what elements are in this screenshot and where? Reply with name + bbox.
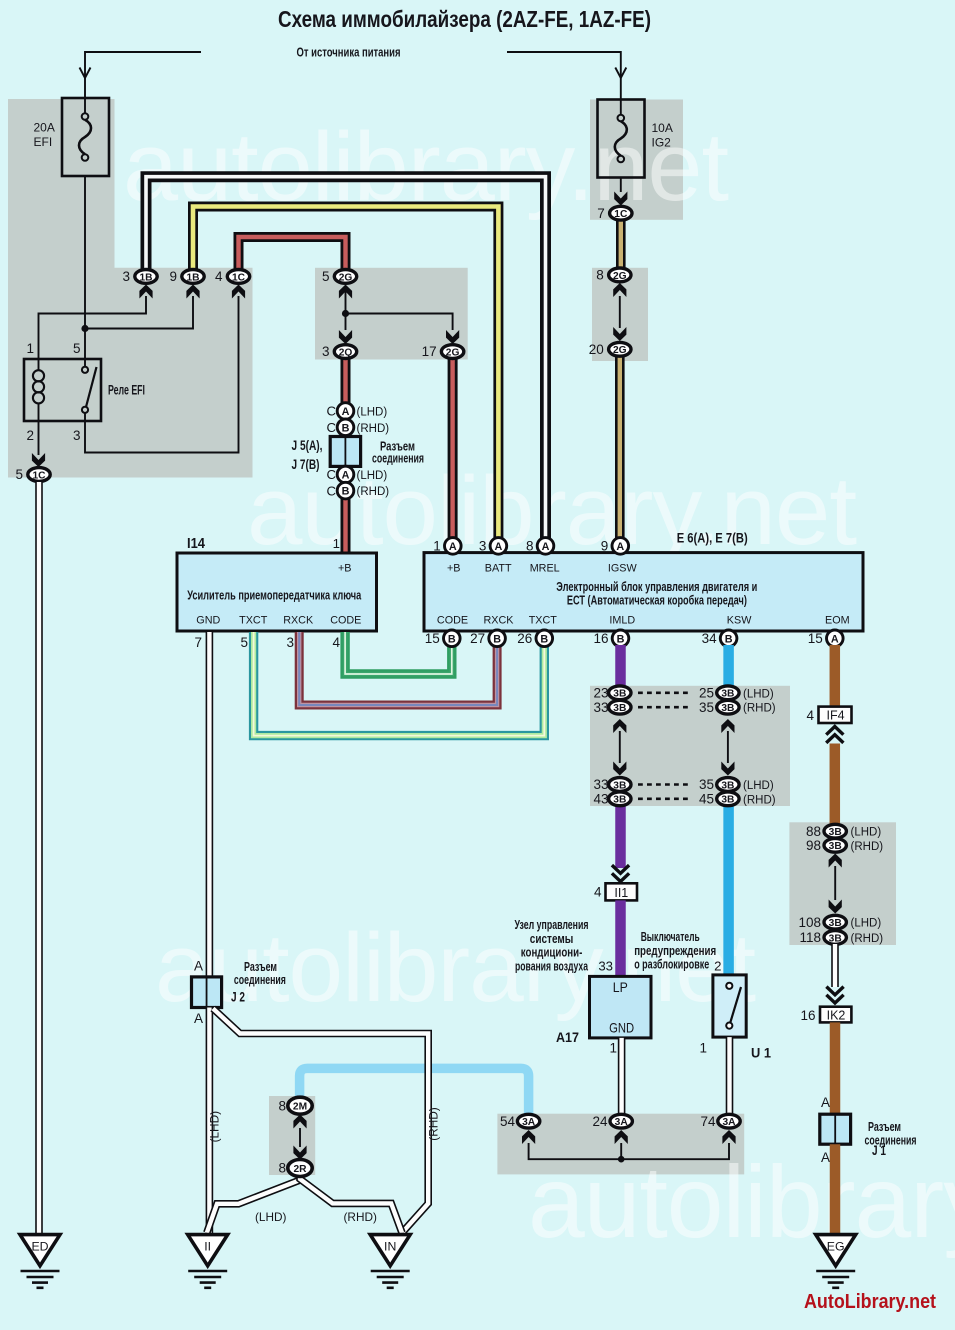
svg-text:От источника питания: От источника питания bbox=[297, 46, 401, 60]
svg-text:74: 74 bbox=[700, 1114, 716, 1129]
svg-text:3B: 3B bbox=[613, 703, 626, 714]
svg-text:J 2: J 2 bbox=[231, 989, 245, 1005]
svg-text:TXCT: TXCT bbox=[239, 615, 268, 627]
svg-text:10A: 10A bbox=[652, 121, 673, 135]
svg-text:25: 25 bbox=[699, 685, 714, 700]
svg-text:1B: 1B bbox=[139, 272, 152, 283]
svg-text:3: 3 bbox=[286, 635, 294, 650]
wire tan 20(2G) to ECU IGSW bbox=[615, 355, 625, 550]
svg-text:2G: 2G bbox=[446, 348, 460, 359]
svg-text:1: 1 bbox=[333, 536, 340, 551]
svg-text:(RHD): (RHD) bbox=[851, 933, 884, 945]
connector 3 2Q bbox=[322, 344, 357, 359]
relay EFI (Реле EFI) bbox=[24, 359, 101, 421]
svg-text:E 6(A), E 7(B): E 6(A), E 7(B) bbox=[677, 530, 748, 546]
svg-text:27: 27 bbox=[470, 631, 485, 646]
svg-text:BATT: BATT bbox=[485, 563, 512, 575]
svg-text:2G: 2G bbox=[339, 272, 353, 283]
fuse 20A EFI bbox=[62, 96, 109, 176]
svg-text:7: 7 bbox=[597, 206, 605, 221]
chevrons into 3A connectors bbox=[522, 1130, 535, 1144]
chevron into 5(1C) bbox=[32, 453, 45, 467]
svg-text:16: 16 bbox=[800, 1008, 815, 1023]
ECU top pins bbox=[433, 538, 461, 555]
wire blue-yellow TXCT loop bbox=[254, 632, 545, 736]
connector 54 3A bbox=[500, 1114, 540, 1129]
gray block around IG2 fuse bbox=[590, 100, 683, 220]
svg-text:B: B bbox=[342, 486, 350, 498]
svg-text:1: 1 bbox=[609, 1041, 617, 1056]
svg-text:4: 4 bbox=[806, 708, 814, 723]
svg-text:5: 5 bbox=[15, 467, 23, 482]
svg-text:1: 1 bbox=[26, 341, 34, 356]
pin C A (LHD) upper bbox=[337, 403, 354, 420]
svg-text:C: C bbox=[326, 404, 336, 419]
wire white 2R to ground II branch bbox=[207, 1174, 300, 1233]
junction box IK2 bbox=[820, 1007, 851, 1023]
wire cyan ECU KSW to 25(3B) bbox=[723, 645, 734, 688]
connector 35/45 3B lower bbox=[699, 777, 739, 792]
wire black 3(1B) to ECU MREL bbox=[146, 177, 546, 550]
wire red 4(1C) to 5(2G) bbox=[239, 237, 346, 269]
svg-text:(LHD): (LHD) bbox=[357, 470, 388, 482]
wire white J2 to ground II (LHD) bbox=[206, 1008, 214, 1235]
wire brown IK2 to J1 bbox=[830, 1022, 841, 1115]
svg-text:U 1: U 1 bbox=[751, 1045, 771, 1061]
svg-text:A17: A17 bbox=[556, 1030, 579, 1045]
svg-text:45: 45 bbox=[699, 791, 714, 806]
pin C A (LHD) lower bbox=[337, 466, 354, 483]
svg-text:Усилитель приемопередатчика кл: Усилитель приемопередатчика ключа bbox=[187, 588, 362, 603]
svg-text:35: 35 bbox=[699, 777, 714, 792]
svg-text:(RHD): (RHD) bbox=[743, 794, 776, 806]
junction line 5(2G) to 3(2Q) and 17(2G) bbox=[345, 291, 347, 330]
junction connector J5(A)/J7(B) bbox=[330, 437, 360, 467]
svg-text:3B: 3B bbox=[829, 827, 842, 838]
svg-text:(LHD): (LHD) bbox=[743, 780, 774, 792]
svg-text:34: 34 bbox=[702, 631, 718, 646]
svg-text:предупреждения: предупреждения bbox=[634, 944, 716, 958]
svg-text:A: A bbox=[831, 633, 839, 645]
svg-text:A: A bbox=[342, 406, 350, 418]
svg-text:II: II bbox=[204, 1239, 211, 1253]
svg-text:+B: +B bbox=[338, 563, 352, 575]
svg-text:(LHD): (LHD) bbox=[255, 1210, 287, 1224]
svg-text:43: 43 bbox=[593, 791, 608, 806]
wire green CODE loop bbox=[345, 632, 452, 674]
gray block around 2Q/2G junction connectors bbox=[315, 268, 468, 360]
svg-text:(LHD): (LHD) bbox=[357, 407, 388, 419]
svg-text:33: 33 bbox=[598, 959, 613, 974]
svg-text:MREL: MREL bbox=[530, 563, 560, 575]
svg-text:1B: 1B bbox=[186, 272, 199, 283]
wire junction to connector 9(1B) bbox=[85, 296, 193, 329]
svg-text:C: C bbox=[326, 483, 336, 498]
arrow into fuse F1 bbox=[80, 68, 91, 79]
svg-text:108: 108 bbox=[798, 915, 821, 930]
svg-text:2: 2 bbox=[714, 959, 721, 974]
block ECU E6(A)/E7(B) bbox=[424, 553, 863, 631]
svg-text:KSW: KSW bbox=[727, 615, 752, 627]
svg-text:4: 4 bbox=[215, 269, 223, 284]
svg-text:35: 35 bbox=[699, 700, 714, 715]
fuse 10A IG2 bbox=[598, 96, 645, 178]
svg-text:GND: GND bbox=[196, 615, 220, 627]
svg-text:1C: 1C bbox=[32, 470, 46, 481]
svg-text:соединения: соединения bbox=[372, 451, 424, 466]
dashes between 3B rows upper bbox=[638, 691, 692, 694]
svg-text:Электронный блок управления дв: Электронный блок управления двигателя и bbox=[556, 580, 757, 594]
arrow pair 3B right column bbox=[721, 719, 734, 733]
svg-text:A: A bbox=[449, 541, 457, 553]
block A17 LP/GND bbox=[590, 976, 652, 1038]
arrow pair 2M/2R bbox=[293, 1115, 306, 1129]
svg-text:(LHD): (LHD) bbox=[851, 827, 882, 839]
svg-text:5: 5 bbox=[322, 269, 330, 284]
svg-text:1C: 1C bbox=[232, 272, 246, 283]
wire cyan 45(3B) to switch U1 bbox=[723, 804, 734, 976]
svg-text:3B: 3B bbox=[613, 780, 626, 791]
svg-text:(RHD): (RHD) bbox=[851, 841, 884, 853]
switch U1 box bbox=[713, 975, 746, 1037]
svg-text:ЕСТ (Автоматическая коробка пе: ЕСТ (Автоматическая коробка передач) bbox=[567, 594, 747, 608]
svg-text:1C: 1C bbox=[614, 209, 628, 220]
connector 8 2M bbox=[278, 1097, 312, 1114]
svg-text:9: 9 bbox=[169, 269, 177, 284]
chevron into 3(1B) bbox=[139, 285, 152, 299]
junction node 2G bbox=[342, 310, 349, 317]
svg-text:CODE: CODE bbox=[437, 615, 468, 627]
connector 5 1C bbox=[15, 467, 50, 482]
svg-text:3A: 3A bbox=[522, 1117, 536, 1128]
svg-text:3A: 3A bbox=[615, 1117, 629, 1128]
gray block around 3A ground connectors bbox=[497, 1114, 744, 1175]
arrow pair 3B left column bbox=[613, 719, 626, 733]
svg-text:(LHD): (LHD) bbox=[208, 1111, 222, 1143]
wire white I14 GND to J2 bbox=[206, 632, 214, 978]
arrow into fuse F2 bbox=[615, 68, 626, 79]
pin C B (RHD) lower bbox=[337, 482, 354, 499]
wire tan IG2 fuse chain 7(1C) to 8(2G) bbox=[616, 219, 626, 268]
svg-text:9: 9 bbox=[601, 539, 609, 554]
power feed line left bbox=[85, 52, 201, 96]
connector 8 2G bbox=[596, 268, 631, 283]
svg-text:2G: 2G bbox=[613, 345, 627, 356]
chevron into 17(2G) bbox=[446, 330, 459, 344]
svg-text:IGSW: IGSW bbox=[608, 563, 638, 575]
svg-text:autolibrary: autolibrary bbox=[528, 1145, 955, 1259]
connector 5 2G bbox=[322, 269, 357, 284]
wire red 3(2Q) to junction connector C bbox=[341, 357, 351, 437]
svg-text:A: A bbox=[821, 1095, 830, 1110]
svg-text:J 5(A),: J 5(A), bbox=[292, 437, 323, 453]
svg-text:3B: 3B bbox=[613, 689, 626, 700]
svg-text:(LHD): (LHD) bbox=[743, 688, 774, 700]
ground bus between 3A connectors bbox=[529, 1143, 729, 1159]
svg-text:IK2: IK2 bbox=[827, 1009, 846, 1023]
ground II bbox=[188, 1235, 228, 1288]
connector 88/98 3B bbox=[806, 824, 846, 839]
svg-text:AutoLibrary.net: AutoLibrary.net bbox=[804, 1290, 936, 1313]
double chevron into II1 bbox=[612, 873, 629, 881]
connector 7 1C bbox=[597, 206, 632, 221]
arrow pair between 8(2G) and 20(2G) bbox=[613, 283, 626, 297]
svg-text:EFI: EFI bbox=[34, 135, 53, 149]
wire relay pin1 branch to connector 3(1B) bbox=[39, 296, 147, 359]
wire white 2R to ground IN branch bbox=[300, 1174, 402, 1233]
wire light blue 54(3A) to 2M bbox=[300, 1068, 529, 1115]
arrow pair 3B EOM column bbox=[829, 854, 842, 868]
svg-text:A: A bbox=[194, 1011, 203, 1026]
svg-text:23: 23 bbox=[593, 685, 608, 700]
junction box II1 bbox=[606, 883, 638, 900]
wire purple II1 to A17 LP bbox=[615, 900, 626, 977]
svg-text:5: 5 bbox=[240, 635, 248, 650]
svg-text:33: 33 bbox=[593, 777, 608, 792]
double chevron into IK2 bbox=[826, 995, 843, 1003]
connector 9 1B bbox=[169, 269, 204, 284]
junction node 3A bus bbox=[618, 1156, 625, 1163]
svg-text:15: 15 bbox=[808, 631, 823, 646]
svg-text:1: 1 bbox=[699, 1041, 707, 1056]
svg-text:J 1: J 1 bbox=[872, 1142, 886, 1158]
connector 17 2G bbox=[422, 344, 464, 359]
svg-text:Узел управления: Узел управления bbox=[515, 918, 589, 932]
svg-text:4: 4 bbox=[332, 635, 340, 650]
svg-text:8: 8 bbox=[278, 1098, 286, 1113]
gray block around 2M/2R connectors bbox=[269, 1096, 315, 1175]
svg-text:IG2: IG2 bbox=[652, 136, 672, 150]
svg-text:8: 8 bbox=[526, 539, 534, 554]
svg-text:3B: 3B bbox=[721, 703, 734, 714]
svg-text:7: 7 bbox=[194, 635, 202, 650]
svg-text:RXCK: RXCK bbox=[484, 615, 515, 627]
svg-text:A: A bbox=[194, 959, 203, 974]
gray block around 3B connectors (EOM) bbox=[789, 822, 896, 945]
svg-text:B: B bbox=[448, 633, 456, 645]
connector 25/35 3B (KSW) bbox=[699, 685, 739, 700]
svg-text:RXCK: RXCK bbox=[283, 615, 314, 627]
svg-text:A: A bbox=[821, 1150, 830, 1165]
svg-text:Выключатель: Выключатель bbox=[641, 930, 700, 944]
svg-text:Реле EFI: Реле EFI bbox=[108, 383, 145, 398]
svg-text:17: 17 bbox=[422, 344, 437, 359]
svg-text:A: A bbox=[494, 541, 502, 553]
junction node fuse/relay bbox=[81, 325, 88, 332]
svg-text:II1: II1 bbox=[614, 886, 628, 900]
wire brown ECU EOM to IF4 bbox=[830, 645, 841, 707]
svg-text:(RHD): (RHD) bbox=[357, 423, 390, 435]
ground IN bbox=[370, 1235, 410, 1288]
svg-text:16: 16 bbox=[593, 631, 608, 646]
svg-text:118: 118 bbox=[799, 930, 821, 945]
dashes between 3B rows lower bbox=[638, 783, 692, 786]
svg-text:GND: GND bbox=[609, 1020, 634, 1036]
svg-text:98: 98 bbox=[806, 838, 821, 853]
ground EG bbox=[816, 1235, 856, 1288]
svg-text:A: A bbox=[542, 541, 550, 553]
svg-text:4: 4 bbox=[594, 885, 602, 900]
gray block around EFI fuse and relay bbox=[8, 99, 253, 478]
connector 24 3A bbox=[592, 1114, 632, 1129]
chevron into 3(2Q) bbox=[339, 330, 352, 344]
junction connector J2 bbox=[192, 977, 222, 1008]
svg-text:88: 88 bbox=[806, 824, 821, 839]
svg-text:15: 15 bbox=[425, 631, 440, 646]
svg-text:3A: 3A bbox=[722, 1117, 736, 1128]
connector 20 2G bbox=[589, 342, 631, 357]
svg-text:A: A bbox=[342, 470, 350, 482]
svg-text:(LHD): (LHD) bbox=[851, 918, 882, 930]
svg-text:B: B bbox=[493, 633, 501, 645]
svg-text:(RHD): (RHD) bbox=[427, 1107, 441, 1140]
svg-text:системы: системы bbox=[530, 932, 574, 946]
chevron into 4(1C) bbox=[232, 285, 245, 299]
connector 108/118 3B bbox=[798, 915, 846, 930]
svg-text:3: 3 bbox=[479, 539, 487, 554]
chevron into 5(2G) bbox=[339, 285, 352, 299]
svg-text:8: 8 bbox=[596, 268, 604, 283]
connector 4 1C bbox=[215, 269, 250, 284]
svg-text:рования воздуха: рования воздуха bbox=[515, 960, 589, 974]
svg-text:2R: 2R bbox=[293, 1164, 307, 1175]
svg-text:J 7(B): J 7(B) bbox=[292, 456, 320, 472]
svg-text:(RHD): (RHD) bbox=[743, 703, 776, 715]
svg-text:+B: +B bbox=[447, 563, 461, 575]
watermark autolibrary.net bbox=[123, 112, 955, 1259]
chevron into 7(1C) bbox=[614, 192, 627, 206]
wire white J2 to ground IN (RHD) bbox=[213, 1009, 428, 1233]
svg-text:кондициони-: кондициони- bbox=[521, 946, 583, 960]
svg-text:C: C bbox=[326, 420, 336, 435]
svg-text:Схема иммобилайзера (2AZ-FE, 1: Схема иммобилайзера (2AZ-FE, 1AZ-FE) bbox=[278, 6, 651, 32]
svg-text:3B: 3B bbox=[829, 918, 842, 929]
svg-text:2Q: 2Q bbox=[339, 348, 353, 359]
svg-text:3B: 3B bbox=[613, 795, 626, 806]
svg-text:LP: LP bbox=[613, 979, 628, 995]
pin C B (RHD) upper bbox=[337, 419, 354, 436]
svg-text:1: 1 bbox=[433, 539, 441, 554]
svg-text:8: 8 bbox=[278, 1161, 286, 1176]
svg-text:IN: IN bbox=[384, 1239, 396, 1253]
svg-text:26: 26 bbox=[517, 631, 532, 646]
svg-text:54: 54 bbox=[500, 1114, 516, 1129]
wire relay pin3 to connector 4(1C) bbox=[85, 296, 239, 453]
svg-text:3B: 3B bbox=[721, 795, 734, 806]
svg-text:3: 3 bbox=[73, 428, 81, 443]
wire fuse F1 down to relay pin 5 bbox=[84, 176, 86, 359]
svg-text:B: B bbox=[617, 633, 625, 645]
svg-text:(RHD): (RHD) bbox=[357, 486, 390, 498]
svg-text:33: 33 bbox=[593, 700, 608, 715]
wire brown J1 to ground EG bbox=[830, 1144, 841, 1234]
wire yellow 9(1B) to ECU BATT bbox=[193, 207, 498, 551]
wire white 118(3B) to IK2 bbox=[831, 944, 839, 987]
connector 3 1B bbox=[122, 269, 157, 284]
svg-text:5: 5 bbox=[73, 341, 81, 356]
gray block around 8(2G)/20(2G) connectors bbox=[592, 268, 648, 361]
wire purple 43(3B) to II1 bbox=[615, 804, 626, 868]
block I14 key transceiver amplifier bbox=[177, 553, 377, 631]
svg-text:3B: 3B bbox=[721, 689, 734, 700]
svg-text:20A: 20A bbox=[34, 121, 55, 135]
connector 74 3A bbox=[700, 1114, 740, 1129]
svg-text:о разблокировке: о разблокировке bbox=[634, 958, 709, 972]
svg-text:B: B bbox=[540, 633, 548, 645]
wire red junction connector C to I14 +B bbox=[341, 466, 351, 553]
connector 8 2R bbox=[278, 1160, 312, 1177]
svg-text:3B: 3B bbox=[829, 933, 842, 944]
gray block around 3B connectors (IMLD/KSW) bbox=[590, 686, 790, 806]
svg-text:2: 2 bbox=[26, 428, 34, 443]
junction box IF4 bbox=[819, 707, 852, 723]
svg-text:3B: 3B bbox=[829, 841, 842, 852]
svg-text:2M: 2M bbox=[293, 1102, 307, 1113]
svg-text:(RHD): (RHD) bbox=[344, 1210, 377, 1224]
svg-text:EOM: EOM bbox=[825, 615, 850, 627]
svg-text:3: 3 bbox=[322, 344, 330, 359]
connector 23/33 3B (IMLD) bbox=[593, 685, 631, 700]
svg-text:CODE: CODE bbox=[330, 615, 361, 627]
ground ED bbox=[20, 1235, 60, 1288]
wire purple ECU IMLD to 23(3B) bbox=[615, 645, 626, 688]
chevron into 9(1B) bbox=[186, 285, 199, 299]
wire white U1 to 74(3A) bbox=[726, 1037, 734, 1115]
svg-text:IMLD: IMLD bbox=[609, 615, 635, 627]
power feed line right bbox=[507, 52, 621, 96]
svg-text:A: A bbox=[616, 541, 624, 553]
svg-text:3: 3 bbox=[122, 269, 130, 284]
svg-text:IF4: IF4 bbox=[826, 709, 844, 723]
wire red 17(2G) to ECU +B bbox=[448, 357, 458, 550]
svg-text:TXCT: TXCT bbox=[529, 615, 558, 627]
svg-text:20: 20 bbox=[589, 342, 604, 357]
wire brown IF4 to 88(3B) bbox=[830, 744, 841, 827]
svg-text:соединения: соединения bbox=[234, 972, 286, 987]
double chevron from IF4 bbox=[826, 727, 843, 735]
svg-text:2G: 2G bbox=[613, 271, 627, 282]
svg-text:ED: ED bbox=[31, 1239, 48, 1253]
svg-text:C: C bbox=[326, 467, 336, 482]
junction connector J1 bbox=[820, 1114, 851, 1144]
svg-text:3B: 3B bbox=[721, 780, 734, 791]
wire red-blue RXCK loop bbox=[299, 632, 497, 705]
wire white LP GND to 24(3A) bbox=[618, 1038, 626, 1115]
wire white 5(1C) to ground ED bbox=[35, 482, 43, 1234]
svg-text:B: B bbox=[342, 422, 350, 434]
connector 33/43 3B lower bbox=[593, 777, 631, 792]
svg-text:I14: I14 bbox=[187, 535, 206, 552]
wire relay pin2 down bbox=[38, 421, 40, 455]
ECU bottom pins bbox=[425, 630, 460, 647]
svg-text:24: 24 bbox=[592, 1114, 608, 1129]
svg-text:EG: EG bbox=[827, 1239, 845, 1253]
svg-text:B: B bbox=[725, 633, 733, 645]
